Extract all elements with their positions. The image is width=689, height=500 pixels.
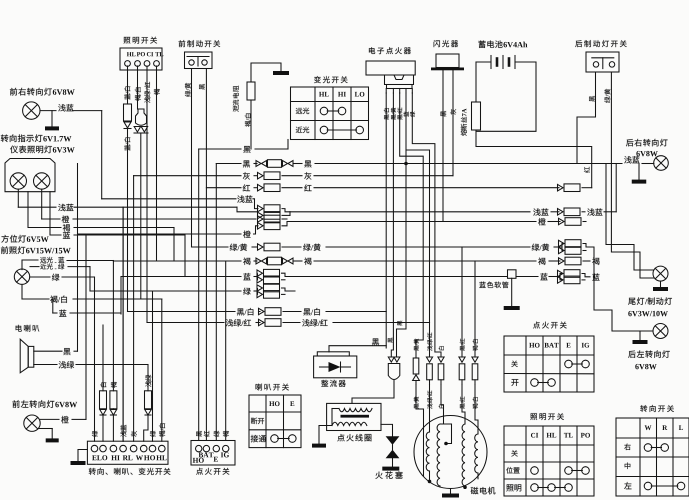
wire black drop from front brake switch to ignition connector xyxy=(205,69,207,441)
row black/white y311.5 with plug xyxy=(128,311,236,313)
horn black wire xyxy=(34,350,62,352)
wire brown down to ignition pin4 xyxy=(225,261,227,441)
horn light green wire xyxy=(34,364,57,366)
wire brown down to turn switch T3 xyxy=(112,261,114,391)
turn switch chart 转向开关 xyxy=(640,405,647,412)
flasher box xyxy=(436,54,459,68)
row blue y276.5 with double plug xyxy=(121,276,241,278)
turn switch title 转向、喇叭、变光开关 xyxy=(89,468,96,475)
right double plug green/yellow xyxy=(559,240,565,247)
wire PO to brown/white row xyxy=(140,133,142,299)
meter lamps title 转向指示灯6V1.7W xyxy=(1,135,9,143)
wire down to blue row xyxy=(184,235,186,277)
CDI box xyxy=(366,61,415,75)
wire black up to black bus xyxy=(77,164,79,352)
battery symbol xyxy=(476,61,491,63)
bleed resistor bottom wire xyxy=(250,100,252,149)
row black y149 xyxy=(199,148,241,150)
front right turn lamp 前右转向灯6V8W xyxy=(10,88,17,96)
front brake switch 前制动开关 title xyxy=(179,40,186,47)
tail/stop lamp 尾灯/制动灯6V3W/10W xyxy=(653,266,668,281)
ground under tail lamp xyxy=(660,281,662,287)
CDI pin4 wire to bullet connector xyxy=(397,93,407,357)
tail lamp feed from bus xyxy=(606,164,653,271)
front brake switch box xyxy=(185,52,213,69)
horn 电喇叭 title xyxy=(16,325,22,332)
double plug orange xyxy=(258,216,264,223)
label 浅绿 xyxy=(145,375,151,387)
label 黑 xyxy=(589,96,595,102)
headlight high beam wire xyxy=(22,260,38,270)
ignition switch title 点火开关 xyxy=(196,468,203,475)
rear right turn lamp 后右转向灯6V8W xyxy=(626,139,633,146)
rear brake switch box xyxy=(586,52,619,72)
wire TL drop xyxy=(156,66,158,261)
blue hose ground wire xyxy=(511,278,513,306)
row light blue meters y207.2 xyxy=(18,206,56,208)
coil HT wire to spark plug xyxy=(381,424,393,436)
rear left turn lamp 后左转向灯6V8W xyxy=(653,324,668,339)
orange wire xyxy=(40,418,59,420)
inline connector D black/red xyxy=(459,357,465,362)
rear brake switch 后制动灯开关 title xyxy=(575,40,582,47)
wire up to rear right turn lamp branch xyxy=(615,164,617,212)
dimmer contacts high beam xyxy=(320,107,328,115)
magneto winding 2 with loop xyxy=(437,424,440,486)
spark plug 火花塞 xyxy=(386,436,400,445)
wire HL to black/white row xyxy=(127,129,129,312)
flasher black wire xyxy=(442,70,444,221)
wire D down to magneto xyxy=(462,385,465,425)
junction dot on black bus xyxy=(404,162,408,166)
wire C down to magneto xyxy=(441,385,444,425)
headlight title 前照灯6V15W/15W xyxy=(1,246,8,254)
magneto winding 3 xyxy=(462,424,465,486)
flasher 闪光器 title xyxy=(434,40,440,47)
bullet connector black wires labels xyxy=(388,338,393,343)
rectifier 整流器 xyxy=(314,356,357,378)
fuse 熔断丝7A xyxy=(472,102,481,130)
horn switch contacts xyxy=(271,435,279,443)
right plug light blue xyxy=(558,209,564,216)
ground under rear left lamp xyxy=(639,331,641,340)
magneto core bar xyxy=(423,432,425,476)
label 褐/白 xyxy=(245,114,251,127)
wire bus down to ignition pin3 xyxy=(215,164,217,441)
wire meter light-blue down to turn switch xyxy=(122,207,124,441)
row green/yellow y247 with plug xyxy=(192,246,229,248)
CDI pin5 wire staircase to connector C xyxy=(412,93,441,357)
meter box xyxy=(5,159,55,192)
wire green down to turn switch T7 xyxy=(152,291,154,441)
dimmer switch 变光开关 title xyxy=(314,76,321,83)
ground for switch box xyxy=(78,450,87,462)
wire meter lamp2 down xyxy=(41,189,43,219)
CDI unit 电子点火器 title xyxy=(369,47,375,54)
battery positive wire down xyxy=(476,62,536,131)
CDI pin labels xyxy=(384,108,389,119)
magneto label 磁电机 xyxy=(471,487,479,494)
wire to dimmer table corner xyxy=(287,140,289,150)
ignition coil 点火线圈 xyxy=(327,403,381,430)
row green y291 with double plug xyxy=(90,290,241,292)
coil ground xyxy=(319,426,332,444)
meter lamp 2 xyxy=(34,173,50,189)
battery 蓄电池6V4Ah title xyxy=(479,40,486,47)
headlight green wire xyxy=(30,276,50,278)
ignition chart contacts on xyxy=(531,379,539,387)
row black bus y163.5 with bowtie connector xyxy=(216,163,241,165)
wire labels above turn switch xyxy=(92,431,98,437)
right double plug blue xyxy=(558,270,564,277)
ground under front left lamp xyxy=(39,428,52,430)
label 蓝/白 xyxy=(124,87,130,100)
bullet connector xyxy=(388,357,394,362)
magneto ground xyxy=(450,489,452,494)
horn switch chart 喇叭开关 xyxy=(256,384,262,391)
row grey y175.7 with plug xyxy=(134,175,241,177)
bleed resistor 泄流电阻 label xyxy=(233,86,239,112)
fuse bottom wire to red drop xyxy=(476,130,592,188)
turn chart contacts left xyxy=(644,482,652,490)
label 绿/黄 xyxy=(185,83,191,97)
turn/horn/dimmer switch connector box xyxy=(87,441,168,464)
wire black to ignition HO pin xyxy=(198,149,200,441)
resistor light green above turn switch xyxy=(145,391,152,409)
label 黑 xyxy=(199,84,205,90)
label 蓝/白 xyxy=(124,138,130,151)
headlight low beam label xyxy=(40,263,46,269)
bleed resistor top wire and ground xyxy=(251,63,281,82)
wire meter lamp1 down xyxy=(17,189,19,207)
row light green/red y322.5 with plug xyxy=(147,322,224,324)
wire grey down to turn switch xyxy=(133,176,135,442)
resistor white above turn switch xyxy=(100,391,107,409)
CDI pin2 wire to bullet connector xyxy=(391,93,393,357)
meter lamps title 仪表照明灯6V3W xyxy=(10,146,18,154)
wire CI drop xyxy=(146,66,148,323)
headlight high beam blue wire xyxy=(40,257,46,263)
headlight blue wire xyxy=(52,299,54,313)
magneto 磁电机 circle xyxy=(414,416,487,489)
inline connector A black/yellow xyxy=(413,358,419,374)
label 浅绿/红 xyxy=(144,82,150,103)
CDI pin1 wire to rectifier xyxy=(385,93,387,348)
ignition chart contacts off xyxy=(565,360,573,368)
row light blue y198.8 xyxy=(102,198,236,200)
inline connector E brown/white xyxy=(472,357,478,362)
rear brake switch black wire xyxy=(577,72,596,164)
position lamp title 方位灯6V5W xyxy=(1,235,8,243)
dimmer contacts low beam xyxy=(320,126,328,134)
wire light blue from lamp xyxy=(40,110,56,112)
bullet bottom wire to coil xyxy=(352,380,394,404)
right plug brown xyxy=(559,258,565,265)
inline connector C white xyxy=(438,357,444,362)
wire HL drop xyxy=(127,66,129,104)
magneto winding 1 xyxy=(426,432,429,471)
wire A down to magneto xyxy=(416,385,424,433)
row red y187.7 with plug xyxy=(206,187,241,189)
wire low beam down to green row xyxy=(89,267,91,291)
wire light-grey drops into turn switch xyxy=(122,207,124,441)
headlight lamp xyxy=(14,269,29,284)
lighting switch chart 照明开关 xyxy=(530,413,537,420)
rear brake switch green/yellow wire to tail lamp xyxy=(611,72,653,278)
wire green/yellow drop from front brake switch xyxy=(191,69,193,248)
resistor brown above turn switch xyxy=(110,391,117,409)
front left turn lamp 前左转向灯6V8W xyxy=(12,400,19,408)
right plug orange xyxy=(559,218,565,225)
wire E down to magneto xyxy=(475,385,478,435)
wire down to brown row xyxy=(173,228,175,262)
ground under rear right lamp xyxy=(638,164,640,180)
inline connector B light green/red xyxy=(426,357,432,362)
wire brown/white row to switch xyxy=(161,299,163,441)
zener resistor on HL wire xyxy=(124,104,132,121)
wire light green down through resistor xyxy=(147,365,149,391)
headlight bottom wire brown/white xyxy=(21,284,23,299)
wire green down to turn switch T1 xyxy=(94,277,96,441)
label 浅蓝 xyxy=(58,104,65,111)
dimmer switch table xyxy=(291,87,369,140)
battery negative wire down to fuse xyxy=(475,62,477,102)
ignition switch chart 点火开关 xyxy=(533,322,540,329)
ignition switch connector box xyxy=(191,441,235,466)
right plug on red row xyxy=(558,184,564,191)
label 褐 xyxy=(154,89,160,95)
diode component on PO wire xyxy=(136,109,147,125)
double plug light blue xyxy=(258,205,264,212)
wire labels above ignition switch xyxy=(196,431,202,437)
lighting switch box xyxy=(120,48,162,70)
wire D from green/yellow row xyxy=(461,247,463,357)
blue hose 蓝色软管 symbol xyxy=(508,270,517,279)
ground under front right lamp xyxy=(51,111,53,127)
wire orange down to front left turn lamp xyxy=(85,234,87,419)
wire E from brown row xyxy=(474,261,476,357)
wire down to light blue row xyxy=(101,111,103,199)
label 黑 xyxy=(441,111,447,117)
label 红 xyxy=(584,167,590,173)
CDI pin4 branch to connector B xyxy=(406,150,430,323)
meter brown wire xyxy=(28,192,61,228)
lighting chart contacts position xyxy=(531,467,539,475)
meter lamp 1 xyxy=(10,173,26,189)
label 灰 xyxy=(450,109,456,115)
row orange2 y234 xyxy=(78,233,241,235)
label 绿/黄 xyxy=(604,89,610,103)
wire B down to magneto xyxy=(429,385,431,433)
CDI connector xyxy=(385,75,414,85)
turn chart contacts right xyxy=(644,444,652,452)
flasher grey wire xyxy=(452,70,454,175)
bleed resistor body xyxy=(247,82,255,100)
wire light green/red down to magneto connector B xyxy=(429,323,431,358)
wire PO drop xyxy=(137,66,139,109)
wire blue vertical from headlight row xyxy=(120,277,122,315)
brown/white row y299 xyxy=(22,298,49,300)
label 褐/白 xyxy=(135,88,141,101)
row orange meters y219 xyxy=(42,218,60,220)
wire green/yellow staircase to rear left turn lamp xyxy=(590,247,653,331)
lighting switch 照明开关 title xyxy=(124,37,131,44)
magneto winding 4 xyxy=(475,434,478,473)
rectifier top wire xyxy=(329,346,386,352)
CDI pin3 wire staircase to connector A xyxy=(400,93,424,357)
meter blue wire xyxy=(50,192,61,235)
lighting chart contacts lighting xyxy=(531,484,539,492)
horn symbol xyxy=(20,339,28,373)
CDI pins xyxy=(385,89,387,94)
